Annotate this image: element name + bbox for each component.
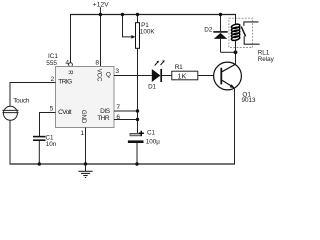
ground rail <box>10 163 235 165</box>
svg-text:TRIG: TRIG <box>58 79 72 86</box>
wire: pin 7 DIS <box>114 110 138 112</box>
capacitor C2 100u electrolytic <box>130 133 142 135</box>
svg-text:D2: D2 <box>204 27 213 34</box>
junction pin7/vertical <box>136 109 139 112</box>
wire: pin 4 from rail down to reset bubble <box>70 15 72 63</box>
junction pin1/rail <box>84 162 87 165</box>
wire: pin 5 CVolt to C1 <box>40 113 56 137</box>
wire: R1 to Q1 base <box>198 75 221 77</box>
wire: pin 3 output to LED <box>114 75 152 77</box>
svg-text:8: 8 <box>95 60 99 67</box>
svg-text:R1: R1 <box>175 64 183 71</box>
svg-text:GND: GND <box>80 110 86 124</box>
svg-text:7: 7 <box>116 104 120 111</box>
svg-text:5: 5 <box>50 106 54 113</box>
relay RL1 dashed enclosure <box>229 18 253 47</box>
diode D2 flyback <box>220 15 222 32</box>
wire: pin 2 TRIG to touch plate <box>10 83 56 107</box>
ground symbol <box>85 164 87 171</box>
wire: C1 to ground rail <box>38 141 40 164</box>
svg-text:VCC: VCC <box>95 69 101 82</box>
svg-text:1K: 1K <box>178 72 187 81</box>
svg-text:CVolt: CVolt <box>58 109 72 116</box>
junction coil/diode/collector <box>234 50 238 54</box>
relay coil <box>231 23 240 41</box>
junction rail/pin8 <box>99 13 102 16</box>
potentiometer P1 100K <box>136 23 140 49</box>
svg-text:100K: 100K <box>140 29 156 36</box>
svg-text:IC1: IC1 <box>48 53 58 60</box>
wire: +12V top rail <box>70 14 236 16</box>
transistor Q1 9013 <box>214 62 242 90</box>
svg-text:10n: 10n <box>46 141 57 148</box>
svg-text:C1: C1 <box>147 130 156 137</box>
svg-text:DIS: DIS <box>100 108 111 115</box>
wire: touch plate down to ground rail <box>9 120 11 164</box>
svg-text:R: R <box>66 70 72 75</box>
wire: pin 1 GND down to rail <box>85 128 87 165</box>
IC IC1 555 timer body <box>56 67 115 128</box>
wiper arrowhead <box>131 35 135 39</box>
svg-text:3: 3 <box>115 68 119 75</box>
wire: D2 anode to junction <box>221 51 236 53</box>
LED light arrows <box>155 62 158 66</box>
junction C1/rail <box>38 162 41 165</box>
svg-text:Q: Q <box>106 71 111 78</box>
wire: wiper of P1 tied to rail <box>123 15 133 37</box>
wire: coil bottom to junction <box>235 41 237 53</box>
LED D1 <box>152 69 161 82</box>
touch plate sensor <box>3 106 17 120</box>
wire: LED to R1 <box>162 75 172 77</box>
resistor R1 1K <box>172 71 198 80</box>
svg-text:Relay: Relay <box>258 56 275 63</box>
svg-text:9013: 9013 <box>242 97 257 104</box>
junction C2/rail <box>135 162 138 165</box>
wire: collector up to relay/diode junction <box>235 52 237 64</box>
wire: pin 6 THR <box>114 119 138 121</box>
junction rail/P1 top <box>136 13 139 16</box>
svg-text:100µ: 100µ <box>146 139 161 146</box>
svg-text:555: 555 <box>46 60 57 67</box>
svg-text:4: 4 <box>65 60 69 67</box>
relay contact <box>244 22 259 26</box>
svg-text:2: 2 <box>51 76 55 83</box>
reset bubble on pin 4 <box>69 63 73 67</box>
wire: pin 8 from rail to IC top <box>100 15 102 67</box>
svg-text:Touch: Touch <box>13 98 30 105</box>
wire: C2 to ground rail <box>136 143 138 164</box>
junction pin6/vertical <box>136 118 139 121</box>
capacitor C1 10n <box>33 136 46 138</box>
junction rail/wiper <box>121 13 124 16</box>
node +12V supply tap <box>99 7 101 14</box>
svg-text:6: 6 <box>116 114 120 121</box>
svg-text:D1: D1 <box>148 83 156 90</box>
wire: rail corner into coil <box>235 15 237 26</box>
wire: rail to P1 top <box>137 15 139 23</box>
junction rail/D2 <box>219 13 222 16</box>
wire: P1 bottom down through DIS/THR to C2 <box>137 48 139 134</box>
svg-text:+12V: +12V <box>93 1 110 8</box>
wire: emitter down to ground rail <box>234 88 236 165</box>
svg-text:1: 1 <box>80 130 84 137</box>
svg-text:THR: THR <box>97 115 110 122</box>
